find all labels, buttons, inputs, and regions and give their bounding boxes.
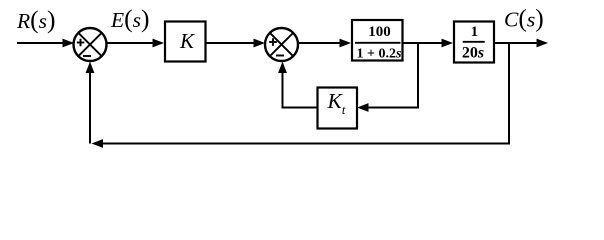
- wire: outer feedback corner up into summer S1: [86, 62, 95, 144]
- block G1 100/(1+0.2s): [352, 20, 403, 62]
- block K (gain): [165, 22, 206, 62]
- svg-text:1 + 0.2s: 1 + 0.2s: [357, 47, 402, 62]
- summing junction S2: [265, 28, 298, 61]
- wire: block G1 to block G2 (with tap to Kt): [403, 39, 453, 48]
- wire: summer S2 to block G1: [298, 39, 351, 48]
- wire: block K to summer S2: [206, 39, 265, 48]
- wire: block G2 to output C(s): [494, 39, 548, 48]
- svg-text:1: 1: [471, 24, 479, 40]
- svg-text:100: 100: [368, 24, 391, 40]
- svg-text:C(s): C(s): [504, 4, 544, 33]
- svg-text:R(s): R(s): [16, 5, 56, 34]
- wire: inner feedback tap down and left into Kt: [357, 43, 418, 112]
- block Kt (tachometer gain): [318, 88, 358, 129]
- svg-text:K: K: [179, 29, 195, 53]
- svg-text:E(s): E(s): [110, 4, 150, 33]
- wire: Kt output left and up into summer S2: [278, 62, 317, 108]
- svg-text:20s: 20s: [462, 44, 484, 61]
- block G2 1/(20s): [454, 22, 494, 63]
- wire: outer feedback tap from output down and left: [92, 43, 510, 148]
- wire: summer S1 to block K: [107, 39, 165, 48]
- wire: input R(s) to summer S1: [17, 39, 74, 48]
- summing junction S1: [74, 28, 107, 61]
